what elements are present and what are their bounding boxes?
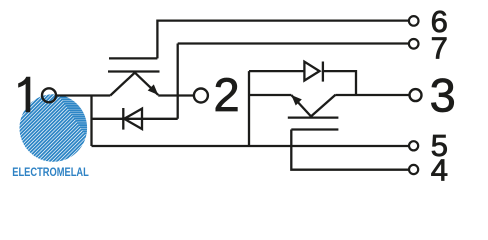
wire gate Q2 down to terminal4 bbox=[291, 130, 409, 170]
gate bar Q2 bbox=[291, 128, 338, 130]
svg-text:2: 2 bbox=[214, 68, 240, 121]
emitter leg Q1 bbox=[135, 73, 158, 95]
gate lead bar Q1 bbox=[109, 57, 157, 59]
wire terminal1 to collector Q1 bbox=[56, 94, 110, 96]
emitter arrow Q1 bbox=[148, 84, 159, 95]
terminal 5 circle bbox=[409, 141, 418, 150]
wire emitter Q1 to terminal2 bbox=[158, 94, 194, 96]
terminal 4 circle bbox=[409, 165, 418, 174]
terminal 3 circle bbox=[410, 89, 422, 101]
emitter arrow Q2 bbox=[291, 95, 302, 106]
diode D2 triangle bbox=[304, 62, 319, 81]
svg-text:4: 4 bbox=[431, 153, 448, 186]
wire diode D2 anode bbox=[249, 70, 304, 72]
terminal 6 circle bbox=[409, 16, 419, 26]
svg-text:7: 7 bbox=[431, 30, 448, 65]
collector leg Q1 bbox=[110, 73, 135, 96]
channel bar Q2 bbox=[288, 116, 339, 118]
wire diode D1 loop bottom bbox=[92, 118, 178, 120]
wire emitter Q2 vertical bbox=[248, 71, 250, 146]
terminal 1 circle bbox=[42, 88, 56, 102]
channel bar Q1 bbox=[108, 70, 160, 72]
wire node1 down to bottom rail bbox=[90, 96, 92, 147]
terminal 2 circle bbox=[194, 89, 208, 103]
collector leg Q2 bbox=[311, 95, 336, 117]
wire terminal7 vertical to emitter Q1 and D1 anode bbox=[177, 44, 179, 119]
wire diode D2 cathode to collector Q2 bbox=[323, 71, 356, 95]
emitter leg Q2 bbox=[291, 95, 311, 116]
watermark logo bbox=[0, 83, 168, 222]
svg-text:ELECTROMELAL: ELECTROMELAL bbox=[12, 165, 89, 179]
wire terminal7 horizontal bbox=[178, 42, 409, 44]
svg-text:3: 3 bbox=[430, 68, 456, 121]
wire emitter Q2 horizontal bbox=[249, 94, 291, 96]
wire terminal6 to gate Q1 bbox=[157, 21, 409, 59]
diode D1 cathode bar bbox=[122, 108, 124, 130]
diode D2 cathode bar bbox=[322, 62, 324, 82]
label terminal 1 bbox=[18, 77, 30, 113]
terminal 7 circle bbox=[409, 39, 419, 49]
wire bottom rail to terminal5 bbox=[92, 145, 410, 147]
wire collector Q2 to terminal3 bbox=[336, 94, 410, 96]
diode D1 triangle bbox=[124, 109, 142, 129]
